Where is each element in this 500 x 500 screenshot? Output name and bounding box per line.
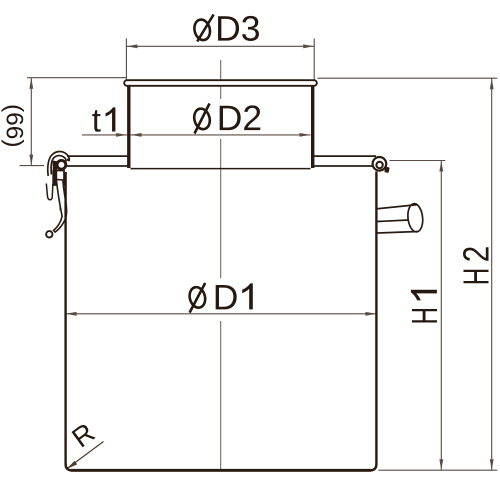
clamp ring [46, 231, 52, 237]
right rim bead [373, 157, 387, 171]
bottom extension line [379, 469, 498, 471]
clamp pivot [53, 161, 57, 171]
svg-text:D3: D3 [215, 9, 260, 49]
svg-text:D: D [213, 277, 239, 317]
tank body [66, 172, 377, 471]
dimension (66) [20, 78, 127, 166]
dimension phiD3 [126, 39, 314, 80]
left rim bead [57, 160, 66, 169]
dimension H1 [390, 161, 446, 471]
label H2 [456, 246, 497, 286]
tank top edge [131, 168, 311, 170]
dimension phiD1 [66, 313, 377, 315]
clamp hook band [48, 152, 70, 176]
clamp bracket [53, 171, 65, 210]
svg-text:t: t [92, 101, 101, 138]
centerline [220, 60, 222, 470]
svg-text:(66): (66) [1, 104, 28, 148]
dimension H2 [318, 78, 498, 470]
clamp wire loop [46, 184, 53, 200]
lid [124, 80, 317, 86]
label H1 [404, 290, 445, 325]
dimension phiD2 [131, 134, 311, 136]
leader R [67, 442, 104, 469]
label phiD1 [188, 277, 253, 317]
svg-text:D2: D2 [217, 98, 262, 138]
clamp lever blade [54, 180, 67, 233]
dimension t1 [82, 134, 127, 136]
neck walls [129, 85, 313, 168]
handle [377, 203, 424, 233]
label phiD3 [192, 9, 260, 49]
clamp hook tip [67, 158, 70, 161]
svg-text:H: H [404, 307, 445, 325]
svg-text:H: H [456, 268, 497, 286]
shoulder [66, 156, 376, 166]
svg-text:2: 2 [456, 246, 497, 263]
label phiD2 [192, 98, 262, 138]
